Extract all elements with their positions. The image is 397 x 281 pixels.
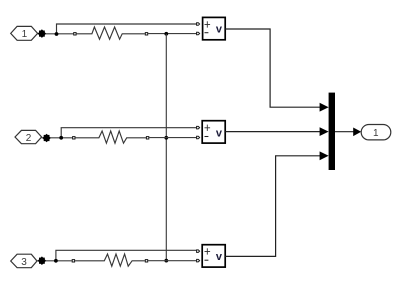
- node: row1 tap junction: [55, 32, 59, 36]
- node: row3 tap junction: [54, 259, 58, 263]
- wire: U3 output to mux input 3: [225, 156, 320, 257]
- wire: common star vertical line: [165, 34, 167, 261]
- svg-text:3: 3: [21, 257, 27, 268]
- voltage measurement U1: [203, 17, 226, 39]
- voltmeter U3 plus pin marker: [197, 250, 200, 253]
- resistor R1 right terminal: [145, 33, 147, 35]
- svg-text:2: 2: [26, 133, 32, 144]
- wire: mux output to outport: [335, 131, 355, 133]
- resistor R2 left terminal: [73, 137, 75, 139]
- wire: row1 bypass riser: [57, 24, 197, 34]
- resistor R1 zigzag: [77, 27, 145, 39]
- svg-text:1: 1: [22, 29, 28, 40]
- svg-text:v: v: [216, 251, 223, 263]
- wire: row3 main from resistor to voltmeter minus: [148, 260, 196, 262]
- port connector row2: [42, 134, 50, 143]
- voltmeter U1 plus pin marker: [197, 23, 200, 26]
- wire: row1 main from inport 1 to resistor: [38, 33, 74, 35]
- arrowhead outport: [353, 128, 361, 137]
- node: row2 tap junction: [59, 136, 63, 140]
- voltmeter U3 minus pin marker: [197, 259, 200, 262]
- svg-text:1: 1: [373, 128, 379, 139]
- svg-text:v: v: [216, 127, 223, 139]
- svg-text:v: v: [216, 24, 223, 36]
- input port 3: [11, 254, 37, 268]
- voltmeter U1 minus pin marker: [197, 32, 200, 35]
- wire: row3 main from inport 3 to resistor: [37, 260, 72, 262]
- resistor R3 right terminal: [145, 260, 147, 262]
- resistor R1 left terminal: [74, 33, 76, 35]
- wire: U2 output to mux input 2: [225, 131, 320, 133]
- voltmeter U2 minus pin marker: [197, 136, 200, 139]
- voltage measurement U2: [202, 121, 225, 143]
- input port 2: [15, 130, 42, 143]
- voltmeter U2 plus pin marker: [197, 126, 200, 128]
- input port 1: [11, 26, 38, 40]
- resistor R3 zigzag: [75, 254, 145, 266]
- node: row1 star-point junction: [164, 32, 168, 36]
- wire: row2 bypass riser: [61, 128, 196, 138]
- port connector row1: [38, 29, 46, 38]
- resistor R2 zigzag: [75, 131, 146, 143]
- wire: row3 bypass riser: [56, 250, 197, 261]
- mux: [329, 93, 335, 170]
- wire: row2 main from resistor to voltmeter minus: [149, 137, 196, 139]
- arrowhead mux input 2: [320, 127, 329, 136]
- port connector row3: [38, 256, 46, 265]
- voltage measurement U3: [202, 245, 225, 267]
- resistor R3 left terminal: [72, 260, 74, 262]
- node: row2 star-point junction: [164, 136, 168, 140]
- wire: row2 main from inport 2 to resistor: [42, 137, 73, 139]
- wire: row1 main from resistor to voltmeter minus: [148, 33, 196, 35]
- arrowhead mux input 1: [320, 103, 329, 112]
- resistor R2 right terminal: [146, 137, 148, 139]
- output port 1: [361, 125, 391, 140]
- wire: U1 output to mux input 1: [225, 29, 320, 107]
- arrowhead mux input 3: [320, 151, 329, 160]
- node: row3 star-point junction: [164, 259, 168, 263]
